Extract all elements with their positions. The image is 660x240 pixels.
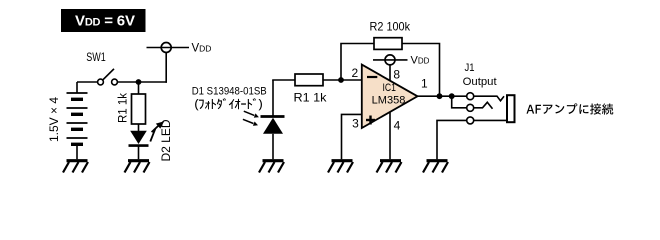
junction dot (feedback node) bbox=[338, 77, 344, 83]
svg-text:VDD: VDD bbox=[192, 43, 212, 55]
wire to middle jack contact bbox=[452, 96, 467, 108]
svg-text:J1: J1 bbox=[465, 62, 475, 74]
VDD=6V callout box bbox=[61, 9, 146, 32]
ground (pin 4) bbox=[377, 161, 402, 173]
svg-text:LM358: LM358 bbox=[372, 94, 406, 106]
junction dot (ring tap) bbox=[449, 93, 455, 99]
output wire pin 1 bbox=[418, 95, 467, 97]
svg-text:R1 1k: R1 1k bbox=[117, 93, 129, 123]
jack plug body bbox=[507, 95, 515, 122]
svg-text:R1 1k: R1 1k bbox=[294, 90, 328, 104]
ground (photodiode) bbox=[259, 161, 284, 173]
battery B1 1.5V x 4 bbox=[67, 82, 88, 159]
jack ring contact lead bbox=[474, 102, 493, 109]
svg-text:SW1: SW1 bbox=[86, 52, 106, 64]
svg-text:VDD: VDD bbox=[411, 55, 430, 67]
wire switch to VDD corner bbox=[117, 81, 167, 83]
photodiode D1 label (katakana) bbox=[195, 98, 262, 110]
svg-text:Output: Output bbox=[463, 76, 497, 88]
svg-text:IC1: IC1 bbox=[382, 82, 396, 94]
resistor R1 (horizontal) bbox=[295, 74, 323, 86]
ground (LED) bbox=[125, 161, 150, 173]
switch SW1 bbox=[98, 69, 118, 85]
jack sleeve wire to ground bbox=[474, 119, 507, 121]
photodiode light arrows bbox=[243, 111, 259, 126]
junction dot (feedback) bbox=[437, 93, 443, 99]
feedback wire R2 down to output bbox=[402, 44, 440, 97]
ground (pin 3) bbox=[328, 161, 353, 173]
wire R1 to LED bbox=[138, 124, 140, 131]
ground (battery) bbox=[63, 161, 88, 173]
op-amp IC1 LM358 bbox=[362, 65, 418, 128]
svg-text:4: 4 bbox=[394, 119, 401, 133]
feedback wire up to R2 bbox=[341, 44, 374, 81]
svg-text:VDD = 6V: VDD = 6V bbox=[75, 13, 135, 30]
pin 3 wire to ground bbox=[342, 114, 363, 159]
svg-text:D1 S13948-01SB: D1 S13948-01SB bbox=[192, 85, 267, 97]
jack J1 contacts bbox=[467, 93, 474, 124]
junction dot (LED branch) bbox=[136, 79, 142, 85]
op-amp minus sign bbox=[367, 76, 377, 78]
wire R1 to op-amp pin 2 bbox=[323, 79, 362, 81]
pin 4 wire to ground bbox=[389, 112, 391, 160]
svg-text:3: 3 bbox=[352, 117, 359, 131]
svg-text:1.5V × 4: 1.5V × 4 bbox=[47, 97, 61, 142]
LED D2 bbox=[129, 131, 149, 160]
LED flash arrow bbox=[150, 121, 164, 141]
resistor R2 bbox=[374, 38, 402, 50]
VDD terminal (left) bbox=[147, 43, 190, 53]
svg-text:2: 2 bbox=[351, 66, 358, 80]
resistor R1 (vertical, LED branch) bbox=[132, 94, 146, 124]
svg-text:8: 8 bbox=[393, 67, 400, 81]
annotation AF amp connection (Japanese) bbox=[526, 103, 613, 114]
wire junction down to R1 bbox=[138, 82, 140, 94]
ground (jack sleeve) bbox=[423, 161, 448, 173]
VDD terminal (op-amp pin 8) bbox=[373, 55, 408, 82]
jack tip contact lead bbox=[474, 96, 504, 101]
wire corner up to VDD terminal bbox=[165, 52, 167, 83]
svg-text:R2 100k: R2 100k bbox=[370, 19, 411, 33]
svg-text:1: 1 bbox=[421, 77, 428, 91]
photodiode D1 bbox=[261, 80, 285, 159]
wire photodiode to R1 (horizontal) bbox=[272, 79, 295, 81]
op-amp plus sign bbox=[366, 116, 375, 125]
wire sleeve to ground bbox=[437, 120, 467, 159]
wire battery to switch bbox=[77, 81, 98, 83]
svg-text:D2 LED: D2 LED bbox=[159, 119, 173, 161]
